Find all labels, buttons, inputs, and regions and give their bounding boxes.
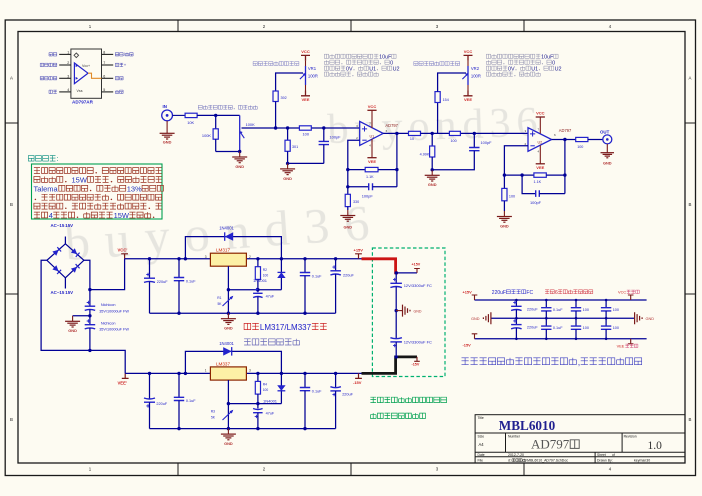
svg-text:-15V: -15V: [463, 342, 472, 347]
junction: [346, 168, 399, 171]
wire 10K to pot: [197, 114, 240, 116]
ground row1: [221, 313, 236, 330]
power VCC at VR1: [301, 49, 310, 66]
svg-text:U1: U1: [531, 66, 538, 72]
note 220uF Panasonic FC: [492, 290, 534, 296]
svg-text:B: B: [689, 202, 692, 207]
op-amp U1 AD797: [356, 121, 399, 145]
junctions bottom rail2: [177, 427, 306, 430]
svg-text:keyman30: keyman30: [634, 459, 650, 463]
svg-text:100K: 100K: [246, 122, 255, 127]
svg-text:0.1uF: 0.1uF: [553, 326, 563, 330]
svg-text:8: 8: [103, 51, 105, 55]
junction: [346, 185, 349, 188]
wire stage1 signal line: [242, 127, 360, 129]
svg-text:+15V: +15V: [412, 263, 421, 267]
svg-text:GND: GND: [471, 317, 480, 321]
note WIMA caps: [545, 290, 593, 296]
junction pot bottom: [238, 150, 241, 153]
resistor feedback 1.1K stage1: [348, 167, 397, 178]
svg-text:IN: IN: [163, 104, 167, 109]
decoupling rails: [475, 300, 647, 339]
capacitor 47uF adj: [253, 288, 275, 313]
svg-text:GND: GND: [224, 326, 233, 331]
svg-text:U1: U1: [370, 135, 375, 139]
svg-text:GND: GND: [163, 140, 172, 145]
note header warm tips: [28, 156, 58, 164]
junction 100pF tap: [473, 132, 476, 135]
svg-text:U2: U2: [555, 66, 562, 72]
wire bottom rail row1: [150, 312, 336, 314]
regulator LM317: [205, 248, 251, 267]
svg-text:15V: 15V: [65, 290, 73, 295]
power net label VEE1: [118, 373, 129, 385]
note: adjustment instructions 2: [486, 54, 561, 76]
resistor 100 fb-gnd stage2: [502, 188, 515, 200]
resistor R4 100: [255, 373, 268, 403]
junctions bottom rail: [177, 312, 306, 315]
ground at 330: [340, 207, 355, 230]
resistor feedback 1.1K stage2: [504, 173, 565, 184]
svg-text:VCC: VCC: [301, 49, 310, 54]
svg-text:B: B: [10, 202, 13, 207]
capacitor feedback 100pF stage1: [348, 183, 397, 198]
svg-text:d:\: d:\: [508, 459, 512, 463]
capacitor 0.1uF decoupling top x546: [541, 300, 563, 318]
svg-text:7: 7: [103, 61, 105, 65]
capacitor 3300uF upper: [390, 273, 432, 339]
svg-text:220uF: 220uF: [343, 273, 354, 277]
power VCC at U1: [367, 104, 376, 128]
svg-text:Vcc+: Vcc+: [82, 64, 90, 68]
svg-text:A: A: [689, 76, 692, 81]
wire U2 output: [552, 139, 576, 141]
svg-text:U1: U1: [369, 66, 376, 72]
svg-text:1N4001: 1N4001: [219, 225, 234, 230]
svg-text:5: 5: [103, 88, 105, 92]
resistor 100 series stage2: [449, 131, 460, 143]
resistor 100 series: [299, 126, 311, 137]
wire cap return to gnd: [288, 162, 324, 164]
op-amp pinout diagram AD797AR: [40, 49, 133, 105]
svg-text:220uF: 220uF: [342, 392, 353, 396]
capacitor 3300uF lower: [390, 338, 432, 356]
svg-text:Title: Title: [478, 416, 484, 420]
op-amp U2 AD797: [525, 128, 573, 152]
note: adjustment instructions 1: [324, 54, 399, 76]
wire U1 feedback right leg: [396, 133, 398, 186]
svg-text:100: 100: [451, 139, 457, 143]
ground at IN: [160, 121, 175, 145]
power VEE at VR2: [464, 85, 473, 102]
svg-text:1N4001: 1N4001: [253, 278, 268, 283]
junctions on rail: [148, 257, 337, 260]
capacitor 0.1uF out2: [300, 373, 322, 428]
diode 1N4001 adj clamp 2: [263, 385, 286, 403]
note: multiturn pot label 1: [253, 62, 299, 66]
diode 1N4001 bypass LM317: [185, 225, 281, 258]
wire bridge plus down: [84, 260, 90, 306]
svg-text:1: 1: [205, 369, 207, 373]
junction U1 out: [395, 132, 398, 135]
svg-text:Nichicon: Nichicon: [101, 321, 116, 325]
svg-text:1.1K: 1.1K: [366, 175, 374, 179]
svg-text:LM337: LM337: [216, 361, 230, 366]
wire VCC1 rail: [125, 258, 362, 260]
svg-text:VCC: VCC: [536, 111, 545, 116]
heavy black wire -15V: [362, 357, 418, 374]
potentiometer R1 5K adj: [217, 290, 233, 314]
svg-text:GND: GND: [283, 176, 292, 181]
junction dots: [575, 299, 578, 340]
svg-text:VEE: VEE: [301, 97, 309, 102]
capacitor 100 decoupling bottom x576: [571, 318, 589, 339]
diode 1N4001 bypass LM337: [185, 341, 281, 373]
connector OUT: [600, 129, 612, 144]
svg-text:VCC: VCC: [618, 290, 626, 295]
svg-text:100R: 100R: [308, 74, 318, 79]
note LM317/LM337 pin order line1: [244, 323, 327, 332]
net label AC input upper: [51, 223, 74, 228]
potentiometer R3 5K adj2: [211, 404, 234, 429]
svg-text:12V/3300uF FC: 12V/3300uF FC: [404, 339, 432, 344]
resistor VR2 injection 154: [435, 73, 466, 133]
wire bridge minus to VEE rail: [41, 260, 125, 373]
power VEE at U2: [536, 145, 545, 170]
junctions on VEE rail: [148, 372, 337, 375]
resistor 10: [409, 131, 421, 141]
svg-text:301: 301: [292, 145, 298, 149]
svg-text:FC: FC: [526, 290, 533, 296]
junction adj2: [227, 402, 230, 405]
power net +15V left: [463, 290, 478, 300]
svg-text:MBL6010: MBL6010: [499, 418, 556, 433]
svg-text:R4: R4: [263, 383, 267, 387]
junction mid: [395, 309, 398, 312]
svg-text:0.1uF: 0.1uF: [553, 308, 563, 312]
resistor 100K shunt: [202, 115, 218, 151]
resistor R2 100: [255, 259, 268, 290]
junction: [88, 288, 91, 291]
resistor 100 output: [576, 137, 588, 148]
svg-text:15W: 15W: [72, 176, 88, 185]
junction cap return: [431, 168, 434, 171]
svg-text:Drawn By:: Drawn By:: [597, 459, 613, 463]
svg-text:GND: GND: [428, 182, 437, 187]
svg-text:2: 2: [249, 255, 251, 259]
svg-text:Size: Size: [478, 435, 485, 439]
svg-text:15V: 15V: [65, 223, 73, 228]
svg-text:VEE': VEE': [118, 380, 127, 385]
svg-text:220uF: 220uF: [157, 280, 168, 284]
capacitor 220uF decoupling top x516: [511, 300, 538, 318]
capacitor 220uF out2: [330, 373, 353, 428]
svg-text:VEE: VEE: [617, 344, 625, 349]
wire LM317 adj: [227, 266, 229, 290]
svg-text:-15V: -15V: [412, 363, 420, 367]
svg-text:A4: A4: [479, 442, 485, 447]
svg-text:100R: 100R: [471, 74, 481, 79]
junction dots: [605, 299, 608, 340]
svg-text:220uF: 220uF: [527, 326, 538, 330]
svg-text:Talema: Talema: [34, 184, 59, 193]
junction: [286, 126, 289, 129]
regulator LM337: [205, 361, 251, 380]
svg-text:0V: 0V: [346, 66, 353, 72]
svg-text:B: B: [10, 417, 13, 422]
power net VEE right bottom: [617, 339, 638, 349]
junction: [214, 114, 217, 117]
svg-text:GND: GND: [224, 441, 233, 446]
power VCC at VR2: [464, 49, 473, 66]
title block: [475, 415, 685, 463]
wire to VCC1 rail riser: [90, 259, 125, 290]
svg-text:B: B: [689, 417, 692, 422]
svg-text:LM317: LM317: [216, 248, 230, 253]
junction: [286, 162, 289, 165]
junction U2 out: [563, 138, 566, 141]
wire LM337 adj: [227, 380, 229, 404]
resistor 392: [273, 91, 287, 102]
svg-text:3: 3: [67, 74, 69, 78]
svg-text:+15V: +15V: [354, 248, 364, 253]
resistor 4.99K shunt: [420, 133, 435, 169]
ground sideways left: [471, 312, 491, 324]
svg-text:AC~15: AC~15: [51, 223, 65, 228]
note mount close to opamp pins: [462, 357, 642, 367]
potentiometer VR1 100R: [300, 66, 318, 85]
ground at 4.99K: [425, 170, 440, 187]
svg-text:AD797: AD797: [385, 123, 398, 128]
svg-text:U2: U2: [393, 66, 400, 72]
svg-text:100: 100: [613, 308, 619, 312]
capacitor 220uF decoupling bottom x516: [511, 318, 538, 339]
svg-text:GND: GND: [646, 317, 655, 321]
svg-text:U2: U2: [538, 141, 543, 145]
junction: [322, 126, 325, 129]
ground at caps midpoint: [65, 316, 90, 333]
svg-text:3: 3: [205, 255, 207, 259]
svg-text:0.1uF: 0.1uF: [312, 274, 322, 278]
svg-text:Number: Number: [508, 435, 521, 439]
svg-text:0.1uF: 0.1uF: [186, 279, 196, 283]
wire 392 to line: [275, 102, 277, 129]
power net +15V: [354, 248, 364, 259]
svg-text:100: 100: [303, 132, 310, 137]
capacitor 220uF rail1: [144, 259, 168, 313]
wire U1 inverting input: [348, 140, 360, 194]
svg-text:Sheet: Sheet: [597, 453, 606, 457]
svg-text:154: 154: [443, 98, 449, 102]
capacitor 220uF rail2: [144, 373, 168, 428]
resistor 10K: [185, 113, 197, 125]
junction: [274, 126, 277, 129]
junction black wire: [395, 355, 398, 358]
svg-text:100pF: 100pF: [362, 193, 374, 198]
capacitor 100 decoupling bottom x606: [601, 318, 619, 339]
potentiometer volume 100K: [240, 115, 256, 151]
junction dots: [545, 299, 548, 340]
svg-text:VR1: VR1: [308, 66, 317, 71]
junction caps midpoint: [88, 314, 91, 317]
wire U2 feedback right leg: [564, 140, 566, 194]
svg-text:100: 100: [263, 274, 269, 278]
svg-text:100: 100: [263, 388, 269, 392]
power VCC at U2: [536, 111, 545, 134]
svg-text:VCC: VCC: [464, 49, 473, 54]
wire VEE rail: [125, 372, 361, 374]
svg-text:6: 6: [555, 290, 558, 296]
junction: [256, 288, 259, 291]
svg-text:35V/10000uF FW: 35V/10000uF FW: [99, 309, 129, 313]
power net -15V: [353, 373, 362, 385]
wire interstage line: [421, 132, 529, 134]
capacitor 100pF shunt stage1: [319, 128, 342, 163]
svg-text:VR2: VR2: [471, 66, 480, 71]
connector IN: [162, 104, 185, 121]
capacitor 100pF shunt stage2: [432, 133, 492, 169]
resistor 330 to gnd: [345, 194, 359, 206]
svg-text:4: 4: [49, 211, 53, 220]
diode 1N4001 adj clamp: [253, 272, 286, 283]
svg-text:100: 100: [577, 145, 583, 149]
svg-text:100: 100: [509, 195, 515, 199]
junction 4.99K tap: [431, 132, 434, 135]
resistor 301 shunt: [285, 128, 298, 163]
wire pot bottom: [216, 151, 240, 153]
svg-text:AD797AR: AD797AR: [72, 100, 94, 105]
power net label VCC1: [118, 248, 129, 259]
svg-text:0.1uF: 0.1uF: [312, 389, 322, 393]
wire to OUT: [588, 139, 603, 141]
svg-text:2: 2: [67, 61, 69, 65]
capacitor 0.1uF decoupling bottom x546: [541, 318, 563, 339]
svg-text:Date: Date: [478, 453, 485, 457]
junction: [503, 173, 567, 176]
svg-text:100pF: 100pF: [330, 135, 342, 140]
svg-text:R1: R1: [217, 296, 221, 300]
svg-text:4: 4: [67, 88, 69, 92]
svg-text:AD797: AD797: [531, 437, 570, 452]
note box transformer advice: [32, 164, 164, 220]
junction caps bottom: [88, 349, 91, 352]
svg-text:15W: 15W: [114, 211, 130, 220]
svg-text:R2: R2: [263, 268, 267, 272]
power net -15V left bottom: [463, 334, 478, 348]
svg-text:35V/10000uF FW: 35V/10000uF FW: [99, 327, 129, 331]
svg-text:0.1uF: 0.1uF: [186, 399, 196, 403]
svg-text:10K: 10K: [187, 120, 194, 125]
svg-text:1N4001: 1N4001: [219, 341, 234, 346]
svg-text::: :: [57, 156, 59, 163]
svg-text:LM317/LM337: LM317/LM337: [260, 323, 312, 332]
power VEE at VR1: [301, 85, 310, 102]
svg-text:GND: GND: [414, 310, 422, 314]
svg-text:VEE: VEE: [536, 165, 544, 170]
svg-text:GND: GND: [603, 161, 612, 166]
potentiometer VR2 100R: [462, 66, 481, 85]
capacitor 0.1uF rail2: [174, 373, 196, 428]
svg-text:GND: GND: [343, 225, 352, 230]
svg-text:12V/3300uF FC: 12V/3300uF FC: [404, 283, 432, 288]
svg-text:AC~15: AC~15: [51, 290, 65, 295]
svg-text:GND: GND: [68, 328, 77, 333]
svg-text:R3: R3: [211, 410, 215, 414]
svg-text:47uF: 47uF: [266, 411, 275, 415]
net label AC input lower: [51, 290, 74, 295]
power net +15V inside box: [412, 263, 421, 273]
svg-text:-15V: -15V: [353, 380, 362, 385]
svg-text:Revision: Revision: [624, 435, 637, 439]
ground at OUT: [601, 144, 615, 166]
capacitor 100 decoupling top x606: [601, 300, 619, 318]
capacitor 47uF adj2: [253, 404, 275, 429]
wire to +15V tick inside box: [395, 271, 418, 274]
svg-text:Nichicon: Nichicon: [101, 303, 116, 307]
power VEE at U1: [367, 139, 376, 164]
svg-text:100K: 100K: [202, 133, 211, 138]
svg-text:330: 330: [353, 200, 359, 204]
svg-text:0V: 0V: [508, 66, 515, 72]
svg-text:6: 6: [103, 74, 105, 78]
svg-text:4.99K: 4.99K: [420, 152, 430, 156]
svg-text:220uF: 220uF: [156, 402, 167, 406]
svg-text:VCC': VCC': [118, 248, 128, 253]
svg-text:392: 392: [281, 96, 287, 100]
svg-text:100: 100: [613, 326, 619, 330]
dashed box: caps on amp board: [372, 248, 445, 377]
power net -15V inside box: [412, 357, 420, 367]
note: multiturn pot label 2: [414, 62, 460, 66]
svg-text:+15V: +15V: [463, 290, 473, 295]
svg-text:220uF: 220uF: [492, 290, 506, 296]
wire adj node: [228, 259, 281, 290]
wire AC top to bridge: [64, 237, 66, 244]
svg-text:AD797: AD797: [559, 128, 572, 133]
svg-text:100pF: 100pF: [481, 140, 493, 145]
ground sideways right: [635, 312, 655, 324]
note: dual volume pot label: [198, 105, 257, 109]
svg-text:100: 100: [583, 326, 589, 330]
ground at pot: [232, 152, 247, 169]
svg-text:1.0: 1.0: [648, 440, 663, 452]
capacitor 0.1uF out1: [300, 259, 322, 313]
svg-text:2012-7-20: 2012-7-20: [508, 453, 524, 457]
svg-text:Vss: Vss: [77, 89, 83, 93]
capacitor filter 10000uF lower: [85, 310, 130, 351]
ground row2: [221, 429, 236, 446]
heavy red wire +15V: [362, 259, 399, 273]
svg-text:100: 100: [583, 308, 589, 312]
svg-text:3: 3: [249, 369, 251, 373]
svg-text:GND: GND: [235, 164, 244, 169]
power net VCC right: [628, 295, 634, 300]
junction: [256, 402, 259, 405]
wire U2 inverting input: [504, 146, 528, 189]
svg-text:of: of: [612, 453, 615, 457]
capacitor 0.1uF rail1: [174, 259, 196, 313]
svg-text:A: A: [10, 76, 13, 81]
ground sideways in box: [396, 305, 422, 317]
wire adj2 node: [228, 373, 281, 403]
wire U1 output: [383, 132, 408, 134]
svg-text:VCC: VCC: [368, 104, 377, 109]
svg-text:GND: GND: [500, 223, 509, 228]
svg-text:OUT: OUT: [600, 129, 610, 134]
capacitor feedback 100pF stage2: [522, 175, 565, 205]
svg-text:1N4001: 1N4001: [263, 399, 278, 404]
svg-text:\MBL6010_AD797.SchDoc: \MBL6010_AD797.SchDoc: [526, 459, 568, 463]
